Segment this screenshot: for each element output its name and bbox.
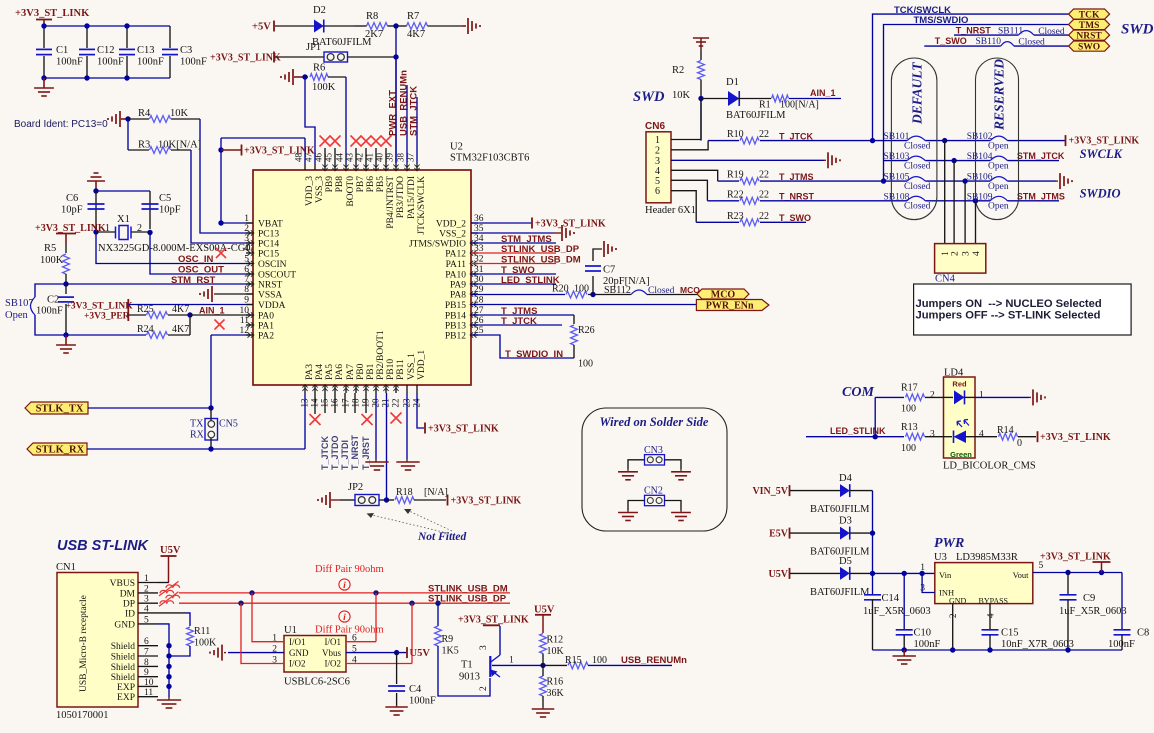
svg-text:100: 100 <box>574 284 589 295</box>
svg-text:Wired on Solder Side: Wired on Solder Side <box>600 415 709 429</box>
svg-text:Shield: Shield <box>111 673 136 683</box>
svg-text:29: 29 <box>474 285 484 295</box>
svg-text:R4: R4 <box>138 108 151 119</box>
svg-text:[N/A]: [N/A] <box>424 487 448 498</box>
svg-text:C14: C14 <box>882 593 900 604</box>
svg-text:1: 1 <box>920 563 925 573</box>
svg-text:JTCK/SWCLK: JTCK/SWCLK <box>417 176 427 235</box>
svg-text:D5: D5 <box>839 556 852 567</box>
svg-text:R25: R25 <box>137 304 154 315</box>
svg-text:Jumpers ON --> NUCLEO Selecte: Jumpers ON --> NUCLEO Selected <box>916 298 1102 310</box>
svg-text:VDD_2: VDD_2 <box>436 220 466 230</box>
svg-text:LED_STLINK: LED_STLINK <box>501 275 560 286</box>
svg-text:U5V: U5V <box>160 545 181 556</box>
svg-text:BAT60JFILM: BAT60JFILM <box>810 504 870 515</box>
svg-text:PB0: PB0 <box>356 363 366 380</box>
svg-text:43: 43 <box>345 153 355 163</box>
svg-text:Open: Open <box>988 182 1009 192</box>
svg-text:+3V3_ST_LINK: +3V3_ST_LINK <box>451 496 522 507</box>
svg-text:STLINK_USB_DM: STLINK_USB_DM <box>501 255 581 266</box>
svg-text:SWD: SWD <box>633 89 665 105</box>
svg-text:2: 2 <box>479 686 489 691</box>
svg-text:R1: R1 <box>759 100 771 111</box>
svg-text:100nF: 100nF <box>914 639 941 650</box>
svg-text:1: 1 <box>105 223 110 234</box>
svg-text:D1: D1 <box>726 77 739 88</box>
svg-text:46: 46 <box>314 153 324 163</box>
svg-text:AIN_1: AIN_1 <box>810 88 836 98</box>
svg-text:4: 4 <box>972 251 982 256</box>
svg-text:100: 100 <box>901 443 916 454</box>
svg-text:Not Fitted: Not Fitted <box>417 531 466 543</box>
svg-text:1050170001: 1050170001 <box>56 710 109 721</box>
svg-text:Open: Open <box>5 310 28 321</box>
svg-text:Diff Pair 90ohm: Diff Pair 90ohm <box>315 564 384 575</box>
svg-text:Red: Red <box>952 380 967 389</box>
svg-text:9013: 9013 <box>459 672 480 683</box>
svg-text:C3: C3 <box>180 45 192 56</box>
svg-text:I/O1: I/O1 <box>325 637 342 647</box>
svg-text:T_JTCK: T_JTCK <box>320 435 330 470</box>
svg-text:PA11: PA11 <box>446 260 467 270</box>
svg-text:21: 21 <box>381 399 391 408</box>
svg-text:1uF_X5R_0603: 1uF_X5R_0603 <box>1059 606 1127 617</box>
svg-text:PB6: PB6 <box>366 176 376 193</box>
svg-text:+3V3_ST_LINK: +3V3_ST_LINK <box>1069 136 1140 147</box>
svg-text:STM32F103CBT6: STM32F103CBT6 <box>450 153 529 164</box>
svg-text:STLINK_USB_DP: STLINK_USB_DP <box>428 594 507 605</box>
svg-text:1: 1 <box>979 391 984 401</box>
svg-text:C10: C10 <box>914 628 932 639</box>
svg-text:AIN_1: AIN_1 <box>199 306 225 316</box>
svg-text:DP: DP <box>123 600 135 610</box>
svg-text:+3V3_ST_LINK: +3V3_ST_LINK <box>428 424 499 435</box>
svg-text:3: 3 <box>244 234 249 244</box>
svg-text:PWR: PWR <box>934 536 964 551</box>
svg-text:10nF_X7R_0603: 10nF_X7R_0603 <box>1001 639 1074 650</box>
svg-text:Open: Open <box>988 141 1009 151</box>
svg-text:STLK_TX: STLK_TX <box>36 404 84 415</box>
svg-text:C15: C15 <box>1001 628 1019 639</box>
svg-text:NRST: NRST <box>258 281 282 291</box>
svg-text:OSCOUT: OSCOUT <box>258 271 296 281</box>
svg-text:R5: R5 <box>44 243 56 254</box>
svg-text:PA10: PA10 <box>445 271 466 281</box>
svg-text:R19: R19 <box>727 170 744 181</box>
svg-text:T_JTCK: T_JTCK <box>501 316 537 327</box>
svg-text:LD3985M33R: LD3985M33R <box>956 552 1018 563</box>
svg-text:PWR_EXT: PWR_EXT <box>388 90 399 136</box>
svg-text:E5V: E5V <box>769 529 789 540</box>
svg-text:LD_BICOLOR_CMS: LD_BICOLOR_CMS <box>943 461 1036 472</box>
svg-text:R15: R15 <box>565 655 582 666</box>
svg-text:DM: DM <box>120 589 136 599</box>
svg-text:PB12: PB12 <box>445 332 466 342</box>
svg-text:100K: 100K <box>194 638 217 649</box>
svg-text:Closed: Closed <box>904 162 931 172</box>
svg-text:i: i <box>343 581 346 591</box>
svg-text:1K5: 1K5 <box>442 646 459 657</box>
svg-text:T_JTMS: T_JTMS <box>779 172 814 182</box>
svg-text:PA8: PA8 <box>450 291 466 301</box>
svg-text:BAT60JFILM: BAT60JFILM <box>810 587 870 598</box>
svg-text:R16: R16 <box>547 677 564 688</box>
svg-text:4: 4 <box>979 430 984 440</box>
svg-text:TX: TX <box>190 419 204 430</box>
svg-text:PA12: PA12 <box>445 250 466 260</box>
svg-text:DEFAULT: DEFAULT <box>910 62 925 125</box>
svg-text:NRST: NRST <box>1076 32 1102 42</box>
svg-text:100nF: 100nF <box>1108 639 1135 650</box>
svg-text:T_SWDIO_IN: T_SWDIO_IN <box>505 349 563 360</box>
svg-text:38: 38 <box>396 153 406 163</box>
svg-text:PA4: PA4 <box>315 364 325 380</box>
svg-text:BOOT0: BOOT0 <box>346 176 356 207</box>
svg-text:ID: ID <box>125 609 135 619</box>
svg-text:PB11: PB11 <box>396 359 406 380</box>
svg-text:12: 12 <box>240 326 250 336</box>
svg-text:100[N/A]: 100[N/A] <box>780 100 819 111</box>
svg-text:22: 22 <box>391 399 401 408</box>
svg-text:1uF_X5R_0603: 1uF_X5R_0603 <box>863 606 931 617</box>
svg-text:R11: R11 <box>194 626 210 637</box>
svg-text:R24: R24 <box>137 324 154 335</box>
svg-text:22: 22 <box>759 189 769 200</box>
svg-text:R26: R26 <box>578 325 595 336</box>
svg-text:PB2/BOOT1: PB2/BOOT1 <box>376 330 386 380</box>
svg-text:10K: 10K <box>170 108 189 119</box>
svg-text:1: 1 <box>509 656 514 666</box>
svg-text:OSC_OUT: OSC_OUT <box>178 265 224 276</box>
svg-text:STM_JTCK: STM_JTCK <box>1017 151 1065 161</box>
svg-text:2: 2 <box>137 223 142 234</box>
svg-text:6: 6 <box>244 265 249 275</box>
svg-text:22: 22 <box>759 211 769 222</box>
svg-text:Vout: Vout <box>1013 570 1030 580</box>
svg-text:10K: 10K <box>672 90 691 101</box>
svg-text:GND: GND <box>114 620 135 630</box>
svg-text:CN4: CN4 <box>935 274 956 285</box>
svg-text:PA9: PA9 <box>450 281 466 291</box>
svg-text:100nF: 100nF <box>97 57 124 68</box>
svg-text:47: 47 <box>304 153 314 163</box>
svg-text:SWO: SWO <box>1078 43 1100 53</box>
svg-text:4: 4 <box>986 613 996 618</box>
svg-text:T_SWO: T_SWO <box>935 36 967 46</box>
svg-text:i: i <box>343 613 346 623</box>
svg-text:+3V3_ST_LINK: +3V3_ST_LINK <box>210 53 281 64</box>
svg-text:100: 100 <box>592 655 607 666</box>
svg-text:COM: COM <box>842 385 874 400</box>
svg-text:SWCLK: SWCLK <box>1080 147 1124 161</box>
svg-text:Closed: Closed <box>904 141 931 151</box>
svg-text:T_JRST: T_JRST <box>361 436 371 470</box>
svg-text:2: 2 <box>950 251 960 256</box>
svg-text:VBUS: VBUS <box>110 579 135 589</box>
svg-text:VSS_2: VSS_2 <box>439 230 466 240</box>
svg-text:Shield: Shield <box>111 653 136 663</box>
svg-text:PB9: PB9 <box>325 176 335 193</box>
svg-text:R7: R7 <box>407 11 419 22</box>
svg-text:VSS_3: VSS_3 <box>315 176 325 203</box>
svg-text:VBAT: VBAT <box>258 220 283 230</box>
svg-text:100: 100 <box>578 359 593 370</box>
svg-text:100nF: 100nF <box>409 696 436 707</box>
svg-text:R20: R20 <box>552 284 569 295</box>
svg-text:5: 5 <box>244 255 249 265</box>
svg-text:3: 3 <box>961 251 971 256</box>
svg-text:GND: GND <box>289 648 309 658</box>
svg-text:1: 1 <box>244 214 249 224</box>
svg-text:5: 5 <box>655 176 660 187</box>
svg-text:STLINK_USB_DP: STLINK_USB_DP <box>501 244 580 255</box>
svg-text:+5V: +5V <box>252 22 271 33</box>
svg-text:JP2: JP2 <box>348 482 363 493</box>
svg-text:T_JTCK: T_JTCK <box>779 131 814 141</box>
svg-text:Vin: Vin <box>939 570 952 580</box>
svg-text:BAT60JFILM: BAT60JFILM <box>726 110 786 121</box>
svg-text:C8: C8 <box>1137 628 1149 639</box>
svg-text:Closed: Closed <box>1038 27 1065 37</box>
svg-text:2K7: 2K7 <box>365 29 383 40</box>
svg-text:100nF: 100nF <box>137 57 164 68</box>
svg-text:T1: T1 <box>461 660 473 671</box>
svg-text:R12: R12 <box>547 635 564 646</box>
svg-text:5: 5 <box>1039 561 1044 571</box>
svg-text:OSC_IN: OSC_IN <box>178 254 214 265</box>
svg-text:X1: X1 <box>117 214 130 225</box>
svg-text:BYPASS: BYPASS <box>979 597 1009 606</box>
svg-text:VDD_1: VDD_1 <box>417 350 427 380</box>
svg-text:PA1: PA1 <box>258 322 274 332</box>
svg-text:4K7: 4K7 <box>407 29 425 40</box>
svg-text:Vbus: Vbus <box>322 648 341 658</box>
svg-text:VDD_3: VDD_3 <box>305 176 315 206</box>
svg-text:+3V3_ST_LINK: +3V3_ST_LINK <box>66 302 134 312</box>
svg-text:0: 0 <box>1017 438 1022 449</box>
svg-text:22: 22 <box>759 129 769 140</box>
svg-text:NX3225GD-8.000M-EXS00A-CG048: NX3225GD-8.000M-EXS00A-CG048 <box>98 243 261 254</box>
svg-text:11: 11 <box>240 316 249 326</box>
svg-text:2: 2 <box>244 224 249 234</box>
svg-text:U1: U1 <box>284 625 297 636</box>
svg-text:T_JTDI: T_JTDI <box>340 440 350 470</box>
svg-text:VSSA: VSSA <box>258 291 282 301</box>
svg-text:C1: C1 <box>56 45 68 56</box>
svg-text:R23: R23 <box>727 211 744 222</box>
svg-text:10K[N/A]: 10K[N/A] <box>158 140 201 151</box>
svg-text:CN6: CN6 <box>645 121 665 132</box>
svg-text:CN5: CN5 <box>219 419 238 430</box>
svg-text:VIN_5V: VIN_5V <box>752 486 788 497</box>
svg-text:2: 2 <box>655 145 660 156</box>
svg-text:Open: Open <box>988 202 1009 212</box>
svg-text:T_NRST: T_NRST <box>779 192 815 202</box>
svg-text:D2: D2 <box>313 5 326 16</box>
svg-text:T_NRST: T_NRST <box>350 434 360 470</box>
svg-text:13: 13 <box>300 398 310 408</box>
svg-text:PB1: PB1 <box>366 363 376 380</box>
svg-text:C9: C9 <box>1083 593 1095 604</box>
svg-text:36K: 36K <box>547 688 565 699</box>
svg-text:JTMS/SWDIO: JTMS/SWDIO <box>409 240 466 250</box>
svg-text:U5V: U5V <box>769 569 789 580</box>
svg-text:10pF: 10pF <box>61 205 83 216</box>
svg-text:I/O1: I/O1 <box>289 637 306 647</box>
svg-text:C5: C5 <box>159 193 171 204</box>
svg-text:PB4/JNTRST: PB4/JNTRST <box>386 176 396 229</box>
svg-text:PA0: PA0 <box>258 312 274 322</box>
svg-text:PA5: PA5 <box>325 364 335 380</box>
svg-text:USB_Micro-B receptacle: USB_Micro-B receptacle <box>79 595 89 692</box>
svg-text:Header 6X1: Header 6X1 <box>645 205 696 216</box>
svg-text:PB13: PB13 <box>445 322 466 332</box>
svg-text:2: 2 <box>948 614 958 619</box>
svg-text:+3V3_ST_LINK: +3V3_ST_LINK <box>535 219 606 230</box>
svg-text:U3: U3 <box>934 552 947 563</box>
svg-text:PB10: PB10 <box>386 359 396 380</box>
svg-text:PB8: PB8 <box>335 176 345 193</box>
svg-text:Open: Open <box>988 162 1009 172</box>
svg-text:100K: 100K <box>312 82 336 93</box>
svg-text:D4: D4 <box>839 473 853 484</box>
svg-text:CN1: CN1 <box>56 562 76 573</box>
svg-text:20pF[N/A]: 20pF[N/A] <box>603 276 650 287</box>
svg-text:+3V3_PER: +3V3_PER <box>84 312 130 322</box>
svg-text:VDDA: VDDA <box>258 301 286 311</box>
svg-text:22: 22 <box>759 170 769 181</box>
svg-text:C4: C4 <box>409 684 422 695</box>
svg-text:USBLC6-2SC6: USBLC6-2SC6 <box>284 677 350 688</box>
svg-text:PC15: PC15 <box>258 250 279 260</box>
svg-text:EXP: EXP <box>117 683 135 693</box>
svg-text:C6: C6 <box>66 193 78 204</box>
svg-text:2: 2 <box>930 391 935 401</box>
svg-text:4K7: 4K7 <box>172 304 189 315</box>
svg-text:100nF: 100nF <box>180 57 207 68</box>
svg-text:STM_JTMS: STM_JTMS <box>1017 191 1065 201</box>
svg-text:PA7: PA7 <box>346 364 356 380</box>
svg-text:U2: U2 <box>450 142 463 153</box>
svg-text:EXP: EXP <box>117 693 135 703</box>
svg-text:PB7: PB7 <box>356 176 366 193</box>
svg-text:PA3: PA3 <box>305 364 315 380</box>
svg-text:PWR_ENn: PWR_ENn <box>706 301 754 312</box>
svg-text:Shield: Shield <box>111 663 136 673</box>
svg-text:Board Ident: PC13=0: Board Ident: PC13=0 <box>14 119 108 130</box>
svg-text:3: 3 <box>479 645 489 650</box>
svg-text:3: 3 <box>930 430 935 440</box>
svg-text:7: 7 <box>244 275 249 285</box>
svg-text:100K: 100K <box>40 255 64 266</box>
svg-text:PB3/JTDO: PB3/JTDO <box>396 176 406 218</box>
svg-text:R18: R18 <box>396 487 413 498</box>
svg-text:R13: R13 <box>901 422 918 433</box>
svg-text:LED_STLINK: LED_STLINK <box>830 426 886 436</box>
svg-text:R8: R8 <box>366 11 378 22</box>
svg-text:PC14: PC14 <box>258 240 279 250</box>
svg-text:SB107: SB107 <box>5 298 34 309</box>
svg-text:T_JTDO: T_JTDO <box>330 435 340 470</box>
svg-text:R9: R9 <box>442 634 454 645</box>
svg-text:R6: R6 <box>313 63 325 74</box>
svg-text:GND: GND <box>949 597 967 606</box>
svg-text:R17: R17 <box>901 383 918 394</box>
svg-text:+3V3_ST_LINK: +3V3_ST_LINK <box>458 615 529 626</box>
svg-text:OSCIN: OSCIN <box>258 260 287 270</box>
svg-text:Shield: Shield <box>111 642 136 652</box>
svg-text:+3V3_ST_LINK: +3V3_ST_LINK <box>1040 432 1111 443</box>
svg-text:T_SWO: T_SWO <box>779 213 811 223</box>
svg-text:R2: R2 <box>672 65 684 76</box>
svg-text:Green: Green <box>950 450 972 459</box>
svg-text:6: 6 <box>655 186 660 197</box>
svg-text:JP1: JP1 <box>306 42 321 53</box>
svg-text:U5V: U5V <box>534 605 555 616</box>
svg-text:VSS_1: VSS_1 <box>407 353 417 380</box>
svg-text:C7: C7 <box>603 265 615 276</box>
svg-text:Closed: Closed <box>1018 38 1045 48</box>
svg-text:PC13: PC13 <box>258 230 279 240</box>
svg-text:17: 17 <box>341 398 351 408</box>
svg-text:PB15: PB15 <box>445 301 466 311</box>
svg-text:R3: R3 <box>138 140 150 151</box>
svg-text:STM_JTCK: STM_JTCK <box>409 86 420 136</box>
svg-text:PA15/JTDI: PA15/JTDI <box>407 176 417 219</box>
svg-text:I/O2: I/O2 <box>289 659 306 669</box>
svg-text:SWD: SWD <box>1121 22 1154 38</box>
svg-text:STLK_RX: STLK_RX <box>36 445 85 456</box>
svg-text:+3V3_ST_LINK: +3V3_ST_LINK <box>35 223 106 234</box>
svg-text:I/O2: I/O2 <box>325 659 342 669</box>
svg-text:T_NRST: T_NRST <box>956 26 992 36</box>
svg-text:48: 48 <box>294 153 304 163</box>
svg-text:C2: C2 <box>47 295 59 306</box>
svg-text:R14: R14 <box>997 425 1014 436</box>
svg-text:Closed: Closed <box>648 286 675 296</box>
svg-text:100nF: 100nF <box>56 57 83 68</box>
svg-text:10pF: 10pF <box>159 205 181 216</box>
svg-text:+3V3_ST_LINK: +3V3_ST_LINK <box>15 8 90 19</box>
svg-text:10K: 10K <box>547 646 565 657</box>
svg-text:9: 9 <box>244 296 249 306</box>
svg-text:4: 4 <box>244 244 249 254</box>
svg-text:Closed: Closed <box>904 202 931 212</box>
svg-text:+3V3_ST_LINK: +3V3_ST_LINK <box>1040 552 1111 563</box>
svg-text:44: 44 <box>335 153 345 163</box>
svg-text:USB_RENUMn: USB_RENUMn <box>621 655 687 666</box>
svg-text:C12: C12 <box>97 45 115 56</box>
svg-text:PA6: PA6 <box>335 364 345 380</box>
svg-text:18: 18 <box>351 398 361 408</box>
svg-text:RX: RX <box>190 430 205 441</box>
svg-text:SWDIO: SWDIO <box>1080 187 1121 201</box>
svg-text:PA2: PA2 <box>258 332 274 342</box>
svg-text:RESERVED: RESERVED <box>992 59 1007 131</box>
svg-text:USB ST-LINK: USB ST-LINK <box>57 538 150 554</box>
svg-text:R22: R22 <box>727 189 744 200</box>
svg-text:D3: D3 <box>839 516 852 527</box>
svg-text:PB14: PB14 <box>445 312 466 322</box>
svg-text:Jumpers OFF --> ST-LINK Select: Jumpers OFF --> ST-LINK Selected <box>916 309 1101 321</box>
svg-text:10: 10 <box>240 306 250 316</box>
svg-text:100nF: 100nF <box>36 306 63 317</box>
svg-text:R10: R10 <box>727 129 744 140</box>
svg-text:4K7: 4K7 <box>172 324 189 335</box>
svg-text:C13: C13 <box>137 45 155 56</box>
svg-text:100: 100 <box>901 404 916 415</box>
svg-text:MCO: MCO <box>711 290 736 301</box>
